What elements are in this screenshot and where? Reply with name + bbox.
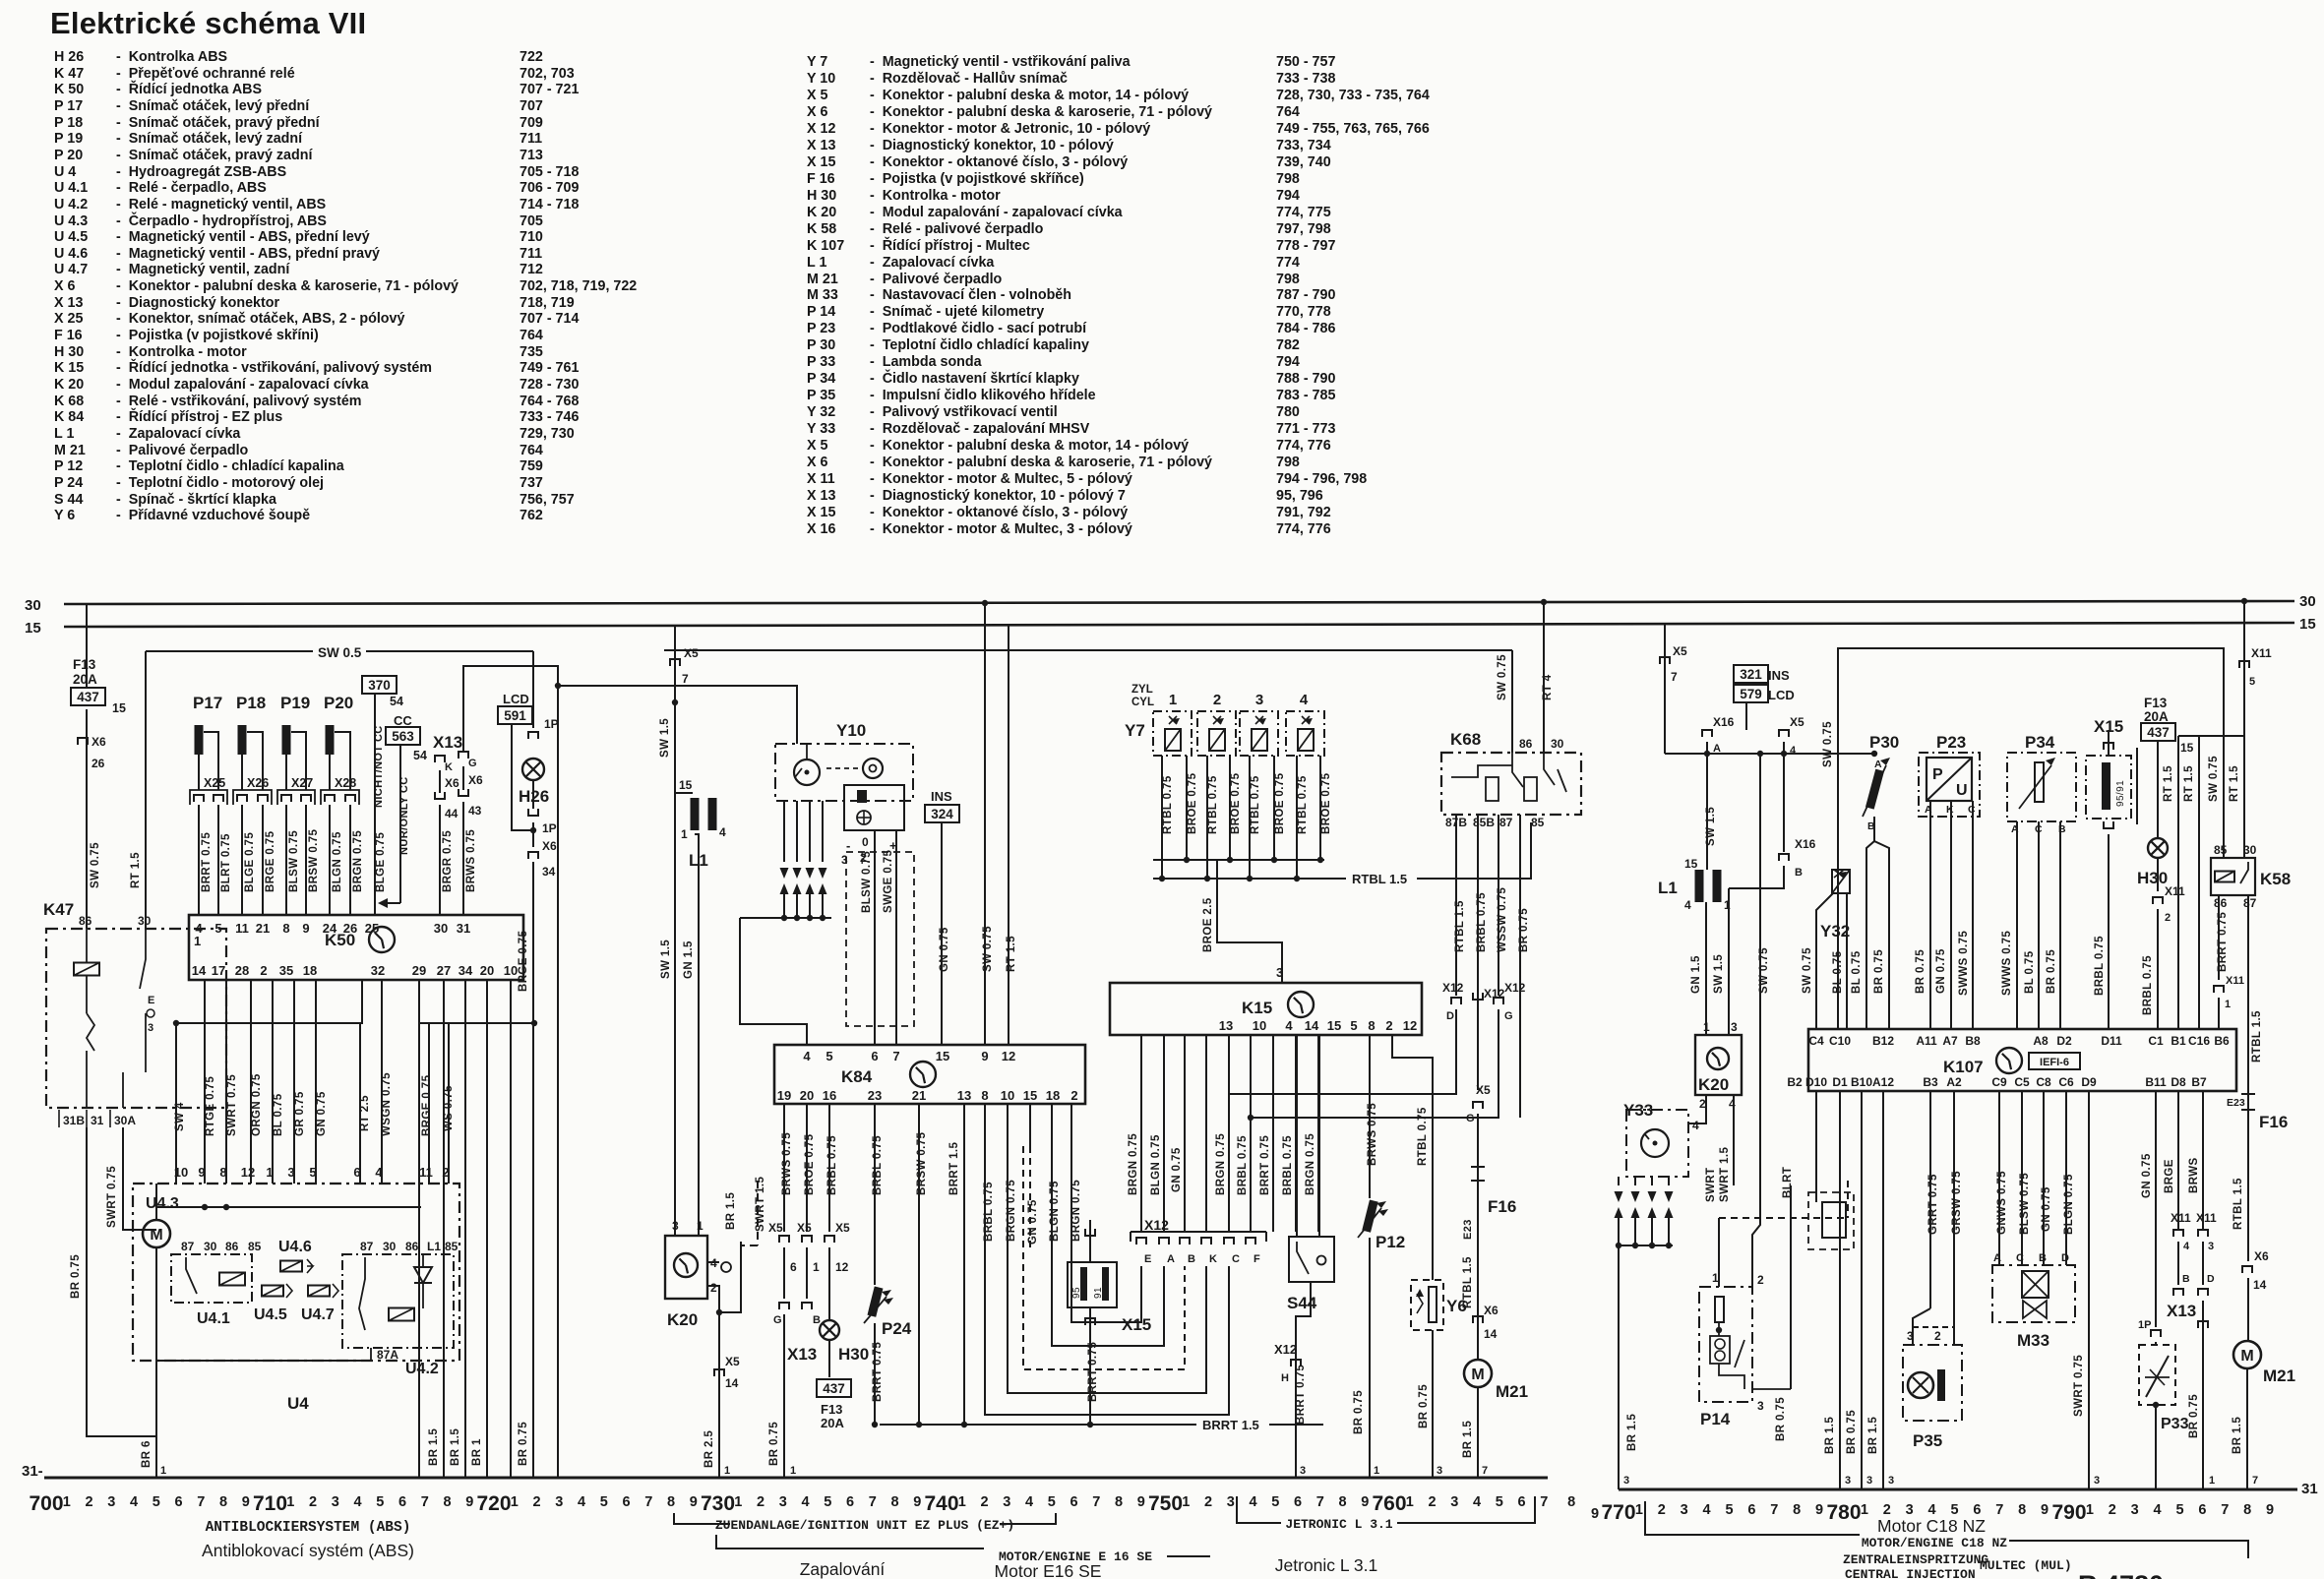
svg-text:P: P xyxy=(1932,766,1943,783)
svg-text:7: 7 xyxy=(2221,1502,2229,1518)
svg-text:SWWS 0.75: SWWS 0.75 xyxy=(2001,931,2013,996)
svg-text:D9: D9 xyxy=(2081,1075,2097,1089)
svg-text:BRRT 0.75: BRRT 0.75 xyxy=(1259,1135,1271,1195)
svg-text:B: B xyxy=(2182,1273,2190,1285)
svg-text:30: 30 xyxy=(434,921,448,936)
svg-text:BRBL 0.75: BRBL 0.75 xyxy=(826,1135,838,1195)
svg-text:X5: X5 xyxy=(835,1221,850,1235)
svg-text:3: 3 xyxy=(1681,1502,1688,1518)
svg-text:BR 0.75: BR 0.75 xyxy=(1353,1390,1365,1434)
svg-text:X12: X12 xyxy=(1144,1217,1169,1233)
svg-text:3: 3 xyxy=(107,1494,115,1510)
svg-text:BRGN 0.75: BRGN 0.75 xyxy=(352,830,364,892)
svg-text:BL 0.75: BL 0.75 xyxy=(1851,950,1863,994)
svg-text:31: 31 xyxy=(91,1114,104,1127)
wires Y32 to K107 C4 C10 xyxy=(1816,893,1833,1029)
svg-text:SW 0.75: SW 0.75 xyxy=(1497,654,1508,700)
svg-text:WSSW 0.75: WSSW 0.75 xyxy=(1497,887,1508,952)
svg-text:3: 3 xyxy=(1255,692,1263,708)
svg-text:2: 2 xyxy=(309,1494,317,1510)
svg-text:G: G xyxy=(1504,1010,1513,1022)
svg-text:21: 21 xyxy=(912,1088,926,1103)
svg-text:BRBL 0.75: BRBL 0.75 xyxy=(872,1135,884,1195)
svg-text:26: 26 xyxy=(92,757,105,770)
svg-text:BR 1.5: BR 1.5 xyxy=(1867,1417,1879,1454)
svg-text:3: 3 xyxy=(1845,1475,1851,1487)
wire D9 to ground (SWRT 0.75) xyxy=(2088,1091,2090,1489)
svg-text:ZENTRALEINSPRITZUNG: ZENTRALEINSPRITZUNG xyxy=(1843,1552,1988,1567)
svg-text:X16: X16 xyxy=(1795,837,1816,851)
ignition module K20 (Multec) xyxy=(1695,1035,1742,1095)
ignition control unit K84 EZ plus xyxy=(774,1045,1085,1104)
svg-text:43: 43 xyxy=(468,804,482,818)
svg-text:SWRT 0.75: SWRT 0.75 xyxy=(2073,1355,2085,1417)
svg-text:720: 720 xyxy=(476,1492,511,1515)
svg-text:1: 1 xyxy=(1406,1494,1414,1510)
svg-text:3: 3 xyxy=(1300,1465,1306,1477)
svg-text:C16: C16 xyxy=(2188,1034,2210,1048)
svg-text:GN 0.75: GN 0.75 xyxy=(316,1091,328,1136)
svg-text:A7: A7 xyxy=(1942,1034,1958,1048)
svg-text:-: - xyxy=(846,838,850,853)
svg-text:ZUENDANLAGE/IGNITION UNIT EZ P: ZUENDANLAGE/IGNITION UNIT EZ PLUS (EZ+) xyxy=(715,1518,1014,1533)
svg-text:1: 1 xyxy=(1182,1494,1190,1510)
svg-text:6: 6 xyxy=(353,1165,360,1180)
svg-text:87: 87 xyxy=(2243,896,2257,910)
svg-text:GR 0.75: GR 0.75 xyxy=(294,1091,306,1136)
svg-text:BRBL 0.75: BRBL 0.75 xyxy=(1237,1135,1249,1195)
svg-text:20A: 20A xyxy=(2144,709,2169,724)
svg-text:M21: M21 xyxy=(2263,1366,2295,1385)
svg-text:85: 85 xyxy=(445,1240,459,1253)
svg-text:GN 0.75: GN 0.75 xyxy=(1171,1147,1183,1192)
svg-text:C6: C6 xyxy=(2058,1075,2074,1089)
svg-text:3: 3 xyxy=(2208,1241,2214,1252)
svg-text:B10: B10 xyxy=(1851,1075,1872,1089)
svg-text:SW 1.5: SW 1.5 xyxy=(1713,954,1725,994)
svg-text:X27: X27 xyxy=(291,776,313,790)
connector X5 pin 7 (EZ) xyxy=(674,626,676,1236)
svg-text:BLSW 0.75: BLSW 0.75 xyxy=(288,830,300,892)
svg-text:BR 1.5: BR 1.5 xyxy=(1626,1414,1638,1451)
power rail 15 xyxy=(64,623,2294,627)
svg-text:5: 5 xyxy=(214,921,221,936)
connector X6 pin 14 (fuel pump) xyxy=(1473,1316,1483,1323)
svg-text:BROE 2.5: BROE 2.5 xyxy=(1202,897,1214,952)
svg-text:C9: C9 xyxy=(1991,1075,2007,1089)
svg-text:18: 18 xyxy=(303,963,317,978)
bus RTBL 1.5 to K68 xyxy=(1153,878,1346,880)
svg-text:579: 579 xyxy=(1740,687,1762,701)
svg-text:86: 86 xyxy=(79,914,92,928)
svg-text:3: 3 xyxy=(2094,1475,2100,1487)
svg-text:M: M xyxy=(1471,1366,1484,1383)
svg-text:X11: X11 xyxy=(2226,975,2244,987)
dashed enclosure wires BLSW/SWGE to K84 xyxy=(846,852,914,1026)
svg-text:5: 5 xyxy=(1048,1494,1056,1510)
svg-text:5: 5 xyxy=(376,1494,384,1510)
wire F13 to K47 pin 86 xyxy=(86,709,88,929)
svg-text:X5: X5 xyxy=(797,1221,812,1235)
svg-text:BRSW 0.75: BRSW 0.75 xyxy=(916,1131,928,1195)
svg-text:6: 6 xyxy=(174,1494,182,1510)
svg-text:86: 86 xyxy=(2214,896,2228,910)
svg-text:3: 3 xyxy=(2131,1502,2139,1518)
svg-text:U: U xyxy=(1956,782,1968,799)
svg-text:G: G xyxy=(468,758,477,769)
svg-text:3: 3 xyxy=(1003,1494,1010,1510)
svg-text:RT 1.5: RT 1.5 xyxy=(2183,765,2195,802)
svg-text:18: 18 xyxy=(1046,1088,1060,1103)
svg-text:K47: K47 xyxy=(43,900,74,919)
throttle switch S44 xyxy=(1289,1237,1334,1282)
svg-text:4: 4 xyxy=(2154,1502,2162,1518)
svg-text:20A: 20A xyxy=(821,1416,844,1430)
svg-text:SW 0.75: SW 0.75 xyxy=(1758,947,1770,994)
svg-text:7: 7 xyxy=(1482,1465,1488,1477)
svg-text:563: 563 xyxy=(392,729,414,744)
svg-text:RTBL 1.5: RTBL 1.5 xyxy=(2232,1178,2244,1230)
svg-text:U4: U4 xyxy=(287,1394,309,1413)
spark gap arrows from Y10 xyxy=(783,801,785,862)
svg-text:U4.2: U4.2 xyxy=(405,1361,439,1377)
svg-text:SW 1.5: SW 1.5 xyxy=(659,718,671,758)
svg-text:X11: X11 xyxy=(2251,646,2272,660)
svg-text:87: 87 xyxy=(360,1240,374,1253)
svg-text:P20: P20 xyxy=(324,694,353,712)
svg-text:RT 4: RT 4 xyxy=(1542,674,1554,700)
svg-text:BRRT 1.5: BRRT 1.5 xyxy=(948,1141,960,1195)
svg-text:WSGN 0.75: WSGN 0.75 xyxy=(381,1072,393,1136)
svg-text:4: 4 xyxy=(353,1494,361,1510)
svg-text:4: 4 xyxy=(801,1494,809,1510)
wires X12 up to K15 xyxy=(1140,1035,1142,1232)
svg-text:X5: X5 xyxy=(1476,1083,1491,1097)
svg-text:X5: X5 xyxy=(1790,715,1804,729)
svg-text:MOTOR/ENGINE C18 NZ: MOTOR/ENGINE C18 NZ xyxy=(1862,1536,2007,1550)
svg-text:1P: 1P xyxy=(542,821,557,835)
svg-text:K20: K20 xyxy=(667,1310,698,1329)
warning lamp H30 (EZ) xyxy=(820,1320,839,1340)
svg-text:87A: 87A xyxy=(377,1348,398,1362)
svg-text:BL 0.75: BL 0.75 xyxy=(2024,950,2036,994)
svg-text:SW 4: SW 4 xyxy=(174,1102,186,1131)
svg-text:7: 7 xyxy=(1770,1502,1778,1518)
svg-text:E23: E23 xyxy=(2227,1097,2245,1109)
svg-text:RT 1.5: RT 1.5 xyxy=(2229,765,2240,802)
svg-text:7: 7 xyxy=(1995,1502,2003,1518)
svg-text:E23: E23 xyxy=(1462,1219,1474,1240)
svg-text:1: 1 xyxy=(1712,1271,1719,1285)
svg-text:RTBL 1.5: RTBL 1.5 xyxy=(1352,872,1407,886)
svg-text:11: 11 xyxy=(419,1165,433,1180)
fuse code 437 F13 20A (EZ) xyxy=(817,1379,851,1397)
svg-text:BROE 0.75: BROE 0.75 xyxy=(1320,772,1332,834)
svg-text:X6: X6 xyxy=(445,776,459,790)
svg-text:3: 3 xyxy=(332,1494,339,1510)
svg-text:6: 6 xyxy=(790,1260,797,1274)
svg-text:4: 4 xyxy=(1300,692,1309,708)
svg-text:SW 1.5: SW 1.5 xyxy=(1705,807,1717,846)
svg-text:X6: X6 xyxy=(468,773,483,787)
svg-text:BRRT 0.75: BRRT 0.75 xyxy=(2217,912,2229,972)
svg-text:17: 17 xyxy=(212,963,225,978)
bus BROE 2.5 to K15 xyxy=(1153,859,1324,861)
svg-text:C4: C4 xyxy=(1808,1034,1824,1048)
feed wires RT 1.5 (Multec right) xyxy=(2178,735,2244,737)
wire bus SW 0.5 (section B top) xyxy=(664,649,1512,651)
svg-text:B6: B6 xyxy=(2214,1034,2230,1048)
svg-text:1: 1 xyxy=(160,1465,166,1477)
svg-text:14: 14 xyxy=(2253,1278,2267,1292)
svg-text:44: 44 xyxy=(445,807,459,820)
svg-text:BR 0.75: BR 0.75 xyxy=(1775,1397,1787,1441)
svg-text:12: 12 xyxy=(835,1260,849,1274)
svg-text:F13: F13 xyxy=(2144,696,2168,710)
svg-text:SWRT 1.5: SWRT 1.5 xyxy=(1719,1147,1731,1202)
svg-text:91: 91 xyxy=(1093,1287,1104,1299)
svg-text:GN 0.75: GN 0.75 xyxy=(1027,1199,1039,1245)
svg-text:9: 9 xyxy=(1815,1502,1823,1518)
svg-text:SW 0.75: SW 0.75 xyxy=(1822,721,1834,767)
svg-text:7: 7 xyxy=(869,1494,877,1510)
svg-text:Jetronic L 3.1: Jetronic L 3.1 xyxy=(1275,1555,1377,1575)
svg-text:31: 31 xyxy=(457,921,470,936)
svg-text:321: 321 xyxy=(1740,667,1762,682)
octane plug X15 (EZ) xyxy=(1085,1229,1095,1236)
svg-text:7: 7 xyxy=(197,1494,205,1510)
svg-text:324: 324 xyxy=(931,807,953,821)
svg-text:BR 0.75: BR 0.75 xyxy=(518,1422,529,1466)
wire X13-G up and over to right xyxy=(463,666,558,1478)
svg-text:C: C xyxy=(1232,1253,1240,1265)
connector X6 pin 26 (left) xyxy=(78,738,88,745)
oil temperature sensor P24 xyxy=(867,1286,883,1316)
svg-text:437: 437 xyxy=(2147,725,2170,740)
svg-text:7: 7 xyxy=(1540,1494,1548,1510)
wire U4.3 to ground rail BR 6 xyxy=(155,1436,157,1478)
svg-text:25: 25 xyxy=(365,921,379,936)
svg-text:P19: P19 xyxy=(280,694,310,712)
wire SW 0.75 (Multec) xyxy=(1752,754,1760,1287)
svg-text:10: 10 xyxy=(1253,1018,1266,1033)
svg-text:SWRT 0.75: SWRT 0.75 xyxy=(226,1074,238,1136)
svg-text:X13: X13 xyxy=(787,1345,817,1364)
svg-text:BR 1.5: BR 1.5 xyxy=(725,1192,737,1230)
wire K84 pin19 via X5 and X13 to ground xyxy=(783,1104,785,1232)
svg-text:86: 86 xyxy=(225,1240,239,1253)
section bracket JETRONIC L 3.1 xyxy=(1237,1496,1281,1523)
svg-text:4: 4 xyxy=(1249,1494,1256,1510)
svg-text:F16: F16 xyxy=(1488,1197,1516,1216)
svg-text:6: 6 xyxy=(871,1049,878,1063)
svg-text:4: 4 xyxy=(2183,1241,2190,1252)
svg-text:A11: A11 xyxy=(1916,1034,1937,1048)
svg-text:BLGE 0.75: BLGE 0.75 xyxy=(244,832,256,892)
svg-text:BRRT 0.75: BRRT 0.75 xyxy=(201,832,213,892)
svg-text:BR 0.75: BR 0.75 xyxy=(768,1422,780,1466)
svg-text:BROE 0.75: BROE 0.75 xyxy=(804,1133,816,1195)
svg-text:M33: M33 xyxy=(2017,1331,2049,1350)
svg-text:2: 2 xyxy=(1658,1502,1666,1518)
svg-text:6: 6 xyxy=(2198,1502,2206,1518)
svg-text:BL 0.75: BL 0.75 xyxy=(1832,950,1844,994)
wire K84 pin13 BRRT 1.5 to bus xyxy=(963,1104,965,1425)
solenoid valve U4.7 xyxy=(308,1286,330,1297)
wires P34 to K107 xyxy=(2016,821,2018,1029)
svg-text:X12: X12 xyxy=(1504,981,1526,995)
svg-text:BRGN 0.75: BRGN 0.75 xyxy=(1128,1133,1139,1195)
svg-text:2: 2 xyxy=(1385,1018,1392,1033)
svg-text:9: 9 xyxy=(465,1494,473,1510)
svg-text:K58: K58 xyxy=(2260,870,2291,888)
svg-text:2: 2 xyxy=(757,1494,764,1510)
svg-text:F13: F13 xyxy=(821,1402,842,1417)
svg-text:3: 3 xyxy=(1731,1020,1738,1034)
svg-text:B11: B11 xyxy=(2145,1075,2167,1089)
svg-text:SWRT 1.5: SWRT 1.5 xyxy=(755,1177,766,1232)
svg-text:87: 87 xyxy=(181,1240,195,1253)
svg-text:2: 2 xyxy=(442,1165,449,1180)
svg-text:9: 9 xyxy=(198,1165,205,1180)
warning lamp H30 (Multec) xyxy=(2148,838,2168,858)
svg-text:1: 1 xyxy=(697,1219,703,1233)
svg-text:7: 7 xyxy=(421,1494,429,1510)
svg-text:1: 1 xyxy=(2225,999,2231,1010)
svg-text:RT 2.5: RT 2.5 xyxy=(359,1095,371,1131)
svg-text:U4.7: U4.7 xyxy=(301,1306,335,1323)
svg-text:P12: P12 xyxy=(1376,1233,1405,1251)
connector block below K107 (dashed) xyxy=(1808,1192,1854,1249)
svg-text:BRBL 0.75: BRBL 0.75 xyxy=(2094,936,2106,996)
svg-text:C5: C5 xyxy=(2014,1075,2030,1089)
svg-text:4: 4 xyxy=(1025,1494,1033,1510)
svg-text:BRRT 0.75: BRRT 0.75 xyxy=(1295,1365,1307,1425)
svg-text:4: 4 xyxy=(803,1049,811,1063)
svg-text:12: 12 xyxy=(1002,1049,1015,1063)
svg-text:GN 1.5: GN 1.5 xyxy=(683,941,695,979)
svg-text:BRBL 0.75: BRBL 0.75 xyxy=(1476,892,1488,952)
svg-text:BROE 0.75: BROE 0.75 xyxy=(1230,772,1242,834)
svg-text:3: 3 xyxy=(841,853,848,867)
svg-text:SW 0.5: SW 0.5 xyxy=(318,645,362,660)
svg-text:GN 0.75: GN 0.75 xyxy=(1935,948,1947,994)
svg-text:ANTIBLOCKIERSYSTEM (ABS): ANTIBLOCKIERSYSTEM (ABS) xyxy=(206,1520,411,1536)
svg-text:8: 8 xyxy=(981,1088,988,1103)
svg-text:85B: 85B xyxy=(1473,816,1495,829)
svg-text:RT 1.5: RT 1.5 xyxy=(1006,936,1017,972)
wires M33 to K107 xyxy=(1998,1091,2000,1265)
svg-text:740: 740 xyxy=(924,1492,958,1515)
svg-text:10: 10 xyxy=(504,963,518,978)
svg-text:9: 9 xyxy=(913,1494,921,1510)
svg-text:X13: X13 xyxy=(2167,1302,2196,1320)
auxiliary air valve Y6 xyxy=(1392,1035,1433,1280)
svg-text:9: 9 xyxy=(1591,1506,1599,1522)
svg-text:K: K xyxy=(445,761,453,773)
svg-text:31: 31 xyxy=(2301,1481,2318,1497)
svg-text:P35: P35 xyxy=(1913,1431,1942,1450)
svg-text:6: 6 xyxy=(1294,1494,1302,1510)
svg-text:3: 3 xyxy=(1227,1494,1235,1510)
svg-text:14: 14 xyxy=(725,1376,739,1390)
svg-text:1: 1 xyxy=(1635,1502,1643,1518)
svg-text:30: 30 xyxy=(138,914,152,928)
svg-text:4: 4 xyxy=(1684,898,1691,912)
injection control unit K15 xyxy=(1110,983,1422,1035)
svg-text:790: 790 xyxy=(2051,1501,2086,1524)
svg-text:RT 1.5: RT 1.5 xyxy=(2163,765,2174,802)
svg-text:BRBL 0.75: BRBL 0.75 xyxy=(983,1182,995,1242)
svg-text:RTBL 0.75: RTBL 0.75 xyxy=(1162,775,1174,834)
svg-text:780: 780 xyxy=(1826,1501,1861,1524)
svg-text:9: 9 xyxy=(302,921,309,936)
line from SW0.5 down to Y10 xyxy=(558,686,797,744)
svg-text:LCD: LCD xyxy=(503,692,529,706)
svg-text:30: 30 xyxy=(2243,843,2257,857)
svg-text:23: 23 xyxy=(868,1088,882,1103)
svg-text:1: 1 xyxy=(2086,1502,2094,1518)
section bracket ZUENDANLAGE/IGNITION UNIT EZ PLUS xyxy=(674,1513,730,1524)
svg-text:BROE 0.75: BROE 0.75 xyxy=(1187,772,1198,834)
svg-text:3: 3 xyxy=(1276,965,1283,980)
svg-text:370: 370 xyxy=(368,678,391,693)
svg-text:30: 30 xyxy=(25,597,41,614)
svg-text:S44: S44 xyxy=(1287,1294,1317,1312)
svg-text:SW 0.75: SW 0.75 xyxy=(982,926,994,972)
svg-text:D: D xyxy=(2207,1273,2215,1285)
svg-text:15: 15 xyxy=(1684,857,1698,871)
wires K50 outputs down to hydro unit U4 xyxy=(204,980,206,1184)
svg-text:SWGE 0.75: SWGE 0.75 xyxy=(883,849,894,913)
feed bus (Multec top) xyxy=(1665,753,1877,755)
svg-text:20A: 20A xyxy=(73,672,97,687)
svg-text:3: 3 xyxy=(1450,1494,1458,1510)
svg-text:21: 21 xyxy=(256,921,270,936)
svg-text:BRWS 0.75: BRWS 0.75 xyxy=(781,1132,793,1195)
wire K84 pin20 to X13 pin B xyxy=(806,1104,808,1232)
svg-text:19: 19 xyxy=(777,1088,791,1103)
svg-text:2: 2 xyxy=(1070,1088,1077,1103)
svg-text:X11: X11 xyxy=(2165,884,2185,898)
svg-text:U4.5: U4.5 xyxy=(254,1306,287,1323)
svg-text:BL 0.75: BL 0.75 xyxy=(273,1093,284,1136)
svg-text:24: 24 xyxy=(323,921,337,936)
U4 internal bus xyxy=(156,1360,371,1362)
power rail 30 (top bus) xyxy=(64,601,2294,604)
crankshaft pulse sensor P35 xyxy=(1929,1091,1931,1308)
svg-text:15: 15 xyxy=(2180,741,2194,755)
svg-text:X28: X28 xyxy=(335,776,356,790)
svg-text:7: 7 xyxy=(2252,1475,2258,1487)
wire S44 to X12 H and ground xyxy=(1296,1282,1311,1478)
section bracket Motor C18 NZ xyxy=(1645,1501,1860,1535)
svg-text:20: 20 xyxy=(800,1088,814,1103)
svg-text:3: 3 xyxy=(672,1219,679,1233)
svg-text:BLGN 0.75: BLGN 0.75 xyxy=(1049,1181,1061,1242)
svg-text:U4.3: U4.3 xyxy=(146,1195,179,1212)
svg-text:8: 8 xyxy=(890,1494,898,1510)
svg-text:750: 750 xyxy=(1148,1492,1183,1515)
svg-text:730: 730 xyxy=(701,1492,735,1515)
svg-text:GNWS 0.75: GNWS 0.75 xyxy=(1996,1171,2008,1235)
dashed feed to P14 xyxy=(1719,1217,1848,1219)
svg-text:M21: M21 xyxy=(1496,1382,1528,1401)
svg-text:P34: P34 xyxy=(2025,733,2055,752)
svg-text:GRSW 0.75: GRSW 0.75 xyxy=(1951,1171,1963,1235)
svg-text:3: 3 xyxy=(1757,1399,1764,1413)
svg-text:770: 770 xyxy=(1601,1501,1635,1524)
